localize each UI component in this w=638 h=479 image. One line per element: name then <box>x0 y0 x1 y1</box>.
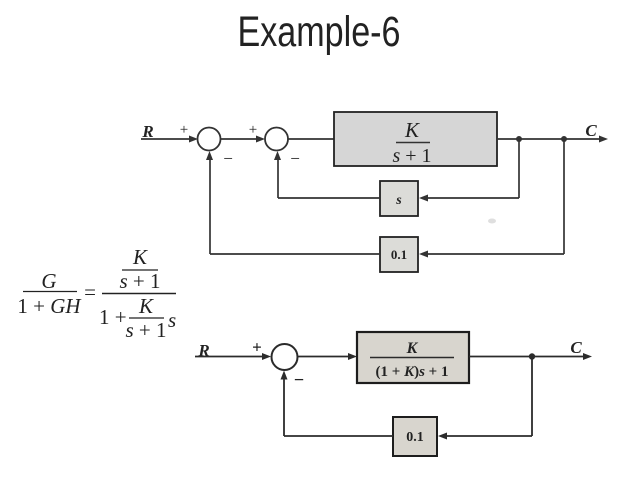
wire node 1 down <box>518 139 520 198</box>
svg-text:+: + <box>249 122 257 138</box>
wire block s to feedback riser <box>278 197 380 199</box>
svg-text:(1 + K)s + 1: (1 + K)s + 1 <box>376 364 449 380</box>
wire block 0.1 to feedback riser (bottom) <box>284 435 393 437</box>
node junction dot 1 <box>516 136 522 142</box>
svg-text:s: s <box>395 193 402 208</box>
arrowhead into summing junction 2 <box>256 136 265 143</box>
block 0.1 (bottom) <box>393 417 437 456</box>
node junction dot 2 <box>561 136 567 142</box>
svg-text:K: K <box>406 340 419 357</box>
svg-text:K: K <box>404 118 420 142</box>
wire riser up to summing junction 2 <box>277 158 279 198</box>
summing junction 2 <box>265 128 288 151</box>
wire summing junction 2 to block G <box>288 138 334 140</box>
svg-text:1 + GH: 1 + GH <box>17 294 82 318</box>
equation rhs numerator small fraction bar <box>122 269 158 271</box>
arrowhead at output C <box>599 136 608 143</box>
wire riser up to summing junction 1 <box>209 158 211 254</box>
wire node to block 0.1 (bottom) <box>446 435 532 437</box>
wire block to output C (bottom) <box>469 356 583 358</box>
scan smudge artifact <box>488 219 496 224</box>
wire node down (bottom) <box>531 357 533 437</box>
svg-text:s + 1: s + 1 <box>125 318 166 342</box>
svg-text:−: − <box>290 149 300 168</box>
arrowhead into block 0.1 (bottom) <box>438 433 447 440</box>
wire R to summing junction 1 <box>141 138 189 140</box>
block K/((1+K)s+1) <box>357 332 469 383</box>
svg-text:=: = <box>84 280 96 304</box>
equation rhs main fraction bar <box>102 293 176 295</box>
svg-text:0.1: 0.1 <box>406 430 424 445</box>
wire block 0.1 (top) to feedback riser <box>210 253 380 255</box>
wire summing junction to block (bottom) <box>298 356 350 358</box>
wire block G to output C <box>497 138 599 140</box>
wire summing junction 1 to summing junction 2 <box>221 138 258 140</box>
svg-text:+: + <box>180 122 188 138</box>
svg-text:Example-6: Example-6 <box>238 8 401 56</box>
arrowhead up into summing junction (bottom) <box>281 371 288 380</box>
svg-text:+: + <box>252 338 262 357</box>
wire node 2 down <box>563 139 565 254</box>
equation lhs fraction bar <box>23 291 77 293</box>
arrowhead into block 0.1 (top) <box>419 251 428 258</box>
svg-text:K: K <box>138 294 154 318</box>
wire riser up to summing junction (bottom) <box>283 377 285 436</box>
arrowhead into summing junction 1 <box>189 136 198 143</box>
arrowhead into summing junction (bottom) <box>262 353 271 360</box>
svg-text:−: − <box>294 370 304 390</box>
node junction dot (bottom) <box>529 353 535 359</box>
svg-text:s + 1: s + 1 <box>119 269 160 293</box>
svg-text:1 +: 1 + <box>99 305 127 329</box>
summing junction (bottom) <box>272 344 298 370</box>
svg-text:K: K <box>132 245 148 269</box>
arrowhead up into summing junction 2 <box>274 151 281 160</box>
arrowhead into block (bottom) <box>348 353 357 360</box>
wire R to summing junction (bottom) <box>195 356 263 358</box>
summing junction 1 <box>198 128 221 151</box>
svg-text:G: G <box>41 269 56 293</box>
wire node 2 to block 0.1 (top) <box>427 253 564 255</box>
svg-text:C: C <box>570 338 582 357</box>
svg-text:s: s <box>168 308 176 332</box>
block 0.1 (top) <box>380 237 418 272</box>
arrowhead up into summing junction 1 <box>206 151 213 160</box>
svg-text:C: C <box>585 121 597 140</box>
block G label fraction bar <box>396 142 430 144</box>
equation rhs denominator small fraction bar <box>129 317 164 319</box>
block label fraction bar (bottom) <box>370 357 454 359</box>
svg-text:0.1: 0.1 <box>391 247 407 262</box>
block G: K/(s+1) <box>334 112 497 166</box>
svg-text:−: − <box>223 149 233 168</box>
svg-text:s + 1: s + 1 <box>392 145 431 167</box>
wire node 1 to block s <box>427 197 519 199</box>
arrowhead at output C (bottom) <box>583 353 592 360</box>
block s <box>380 181 418 216</box>
arrowhead into block s <box>419 195 428 202</box>
